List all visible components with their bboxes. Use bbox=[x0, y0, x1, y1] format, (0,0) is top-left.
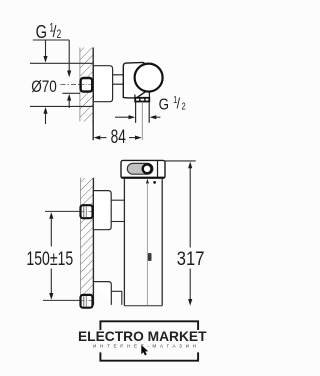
logo bottom bracket bbox=[100, 352, 198, 360]
fitting bottom extension line bbox=[62, 92, 80, 94]
thermostat head (top of bar) bbox=[121, 160, 165, 178]
svg-text:150±15: 150±15 bbox=[26, 248, 73, 270]
svg-text:G: G bbox=[159, 96, 169, 113]
head bottom heavy line bbox=[121, 176, 165, 178]
outlet connector under knob bbox=[135, 93, 150, 99]
svg-text:2: 2 bbox=[182, 101, 186, 112]
svg-text:84: 84 bbox=[111, 127, 127, 148]
connecting pipe wall-to-valve bbox=[113, 75, 124, 84]
escutcheon (side view, on wall) bbox=[93, 66, 112, 102]
upper union nut bbox=[81, 205, 93, 218]
outlet nut (ribbed) bbox=[135, 98, 149, 102]
pill control in head bbox=[127, 163, 153, 174]
lower connection escutcheon (cut at bottom) bbox=[93, 282, 111, 305]
lower connection stub bbox=[111, 291, 122, 305]
logo top bracket bbox=[100, 321, 198, 330]
outlet pipe G1/2 bbox=[136, 102, 150, 123]
bar body bbox=[124, 178, 162, 306]
dim 84 arrows bbox=[94, 136, 142, 140]
upper connection escutcheon bbox=[93, 191, 111, 230]
svg-text:2: 2 bbox=[57, 29, 62, 41]
lower union nut bbox=[81, 295, 93, 308]
temperature knob (circle) bbox=[135, 64, 163, 92]
escutcheon bottom extension line bbox=[30, 105, 93, 107]
G1/2 wall fitting (square union) bbox=[93, 80, 95, 90]
dim arrow down to escutcheon top (O70) bbox=[43, 40, 47, 63]
G1/2 outlet dim arrows bbox=[115, 115, 160, 119]
head divider bbox=[157, 161, 159, 178]
svg-text:Ø70: Ø70 bbox=[31, 78, 57, 96]
dim arrow up to fitting bottom bbox=[67, 94, 71, 108]
leader line down to fitting with arrow bbox=[67, 40, 71, 77]
wall hatch (bottom drawing) bbox=[80, 178, 93, 305]
label G 1/2 (top-left) bbox=[36, 22, 62, 42]
center line (dash-dot) to fitting bbox=[61, 83, 92, 85]
upper connection stub bbox=[111, 200, 124, 221]
dim 150±15 vertical line + arrows bbox=[49, 212, 53, 300]
wall hatch (top drawing) bbox=[80, 48, 94, 122]
dim 317 extension line from head bbox=[165, 160, 196, 162]
wall face line (top drawing) bbox=[92, 48, 94, 141]
svg-text:317: 317 bbox=[177, 248, 205, 270]
dim 317 vertical line + arrows bbox=[188, 162, 192, 306]
inner thin line with top arrow bbox=[146, 179, 149, 306]
valve body (side) bbox=[123, 62, 148, 98]
dim arrow up to escutcheon bottom (O70) bbox=[43, 107, 47, 124]
lower center extension line bbox=[43, 299, 81, 301]
clip marker on line bbox=[148, 253, 152, 261]
svg-text:ELECTRO MARKET: ELECTRO MARKET bbox=[78, 329, 207, 344]
svg-text:G: G bbox=[36, 22, 47, 42]
outlet center line (extends to 84 dim) bbox=[141, 102, 143, 140]
ring knob in head bbox=[143, 164, 152, 173]
upper center extension line bbox=[45, 210, 81, 212]
cursor arrow bbox=[141, 345, 148, 355]
label G 1/2 (right) bbox=[159, 95, 186, 113]
leader underline for G 1/2 bbox=[33, 39, 69, 41]
escutcheon top extension line bbox=[30, 62, 93, 64]
wall face line (bottom drawing) bbox=[92, 178, 94, 305]
dot marker bbox=[153, 181, 156, 184]
